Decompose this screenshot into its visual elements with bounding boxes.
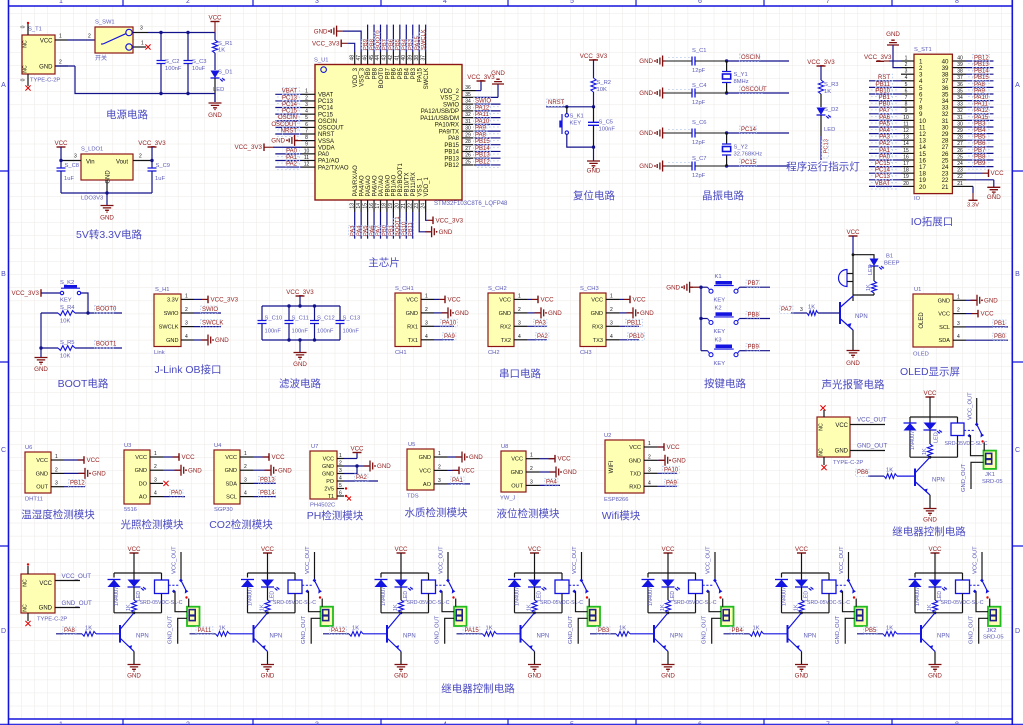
svg-text:PA4/AO: PA4/AO bbox=[359, 175, 365, 197]
net label PA7 base wire bbox=[780, 306, 808, 314]
svg-text:2: 2 bbox=[438, 464, 441, 470]
net label BOOT1 wire bbox=[95, 341, 123, 349]
svg-text:GND_OUT: GND_OUT bbox=[568, 615, 574, 644]
svg-text:VCC_OUT: VCC_OUT bbox=[968, 392, 974, 420]
svg-text:B: B bbox=[1015, 271, 1020, 278]
svg-text:4: 4 bbox=[185, 334, 188, 340]
relay bottom rail wire bbox=[515, 611, 563, 614]
svg-text:S_D2: S_D2 bbox=[824, 107, 839, 113]
ground GND at U8 pin 2 bbox=[539, 467, 577, 478]
svg-text:12pF: 12pF bbox=[692, 68, 706, 74]
svg-text:5: 5 bbox=[339, 483, 342, 489]
svg-text:34: 34 bbox=[957, 95, 963, 101]
ground GND of reset circuit bbox=[587, 145, 601, 174]
svg-text:温湿度检测模块: 温湿度检测模块 bbox=[21, 508, 95, 521]
resistor 1K base bbox=[216, 626, 254, 637]
svg-text:VCC_OUT: VCC_OUT bbox=[305, 546, 311, 574]
svg-text:10: 10 bbox=[304, 148, 310, 154]
svg-text:TX1: TX1 bbox=[408, 338, 418, 344]
svg-text:PA7: PA7 bbox=[781, 307, 793, 313]
svg-text:PA9: PA9 bbox=[666, 480, 678, 486]
svg-text:NPN: NPN bbox=[136, 634, 149, 640]
svg-text:S_C1: S_C1 bbox=[692, 48, 707, 54]
svg-text:1N4007: 1N4007 bbox=[247, 587, 253, 606]
svg-text:BEEP: BEEP bbox=[884, 261, 900, 267]
resistor 1K of relay LED bbox=[527, 600, 538, 613]
svg-text:VCC: VCC bbox=[272, 454, 286, 461]
svg-text:VCC: VCC bbox=[923, 390, 937, 397]
svg-text:S_C9: S_C9 bbox=[156, 163, 171, 169]
svg-text:10: 10 bbox=[903, 115, 909, 121]
svg-text:RXD: RXD bbox=[629, 484, 641, 490]
resistor 1K base bbox=[483, 626, 521, 637]
svg-text:NC: NC bbox=[819, 423, 825, 431]
svg-text:1: 1 bbox=[530, 453, 533, 459]
connector JK SRD-05 bbox=[187, 607, 200, 626]
svg-text:JK2: JK2 bbox=[987, 628, 997, 634]
ground GND at U6 pin 2 bbox=[64, 468, 106, 479]
svg-text:GND: GND bbox=[208, 112, 222, 119]
svg-text:1N4007: 1N4007 bbox=[910, 431, 916, 450]
svg-text:VSS_3: VSS_3 bbox=[359, 67, 365, 86]
svg-text:VCC: VCC bbox=[39, 581, 52, 587]
svg-text:PA1: PA1 bbox=[879, 148, 891, 154]
svg-text:IO: IO bbox=[914, 196, 921, 202]
svg-text:35: 35 bbox=[957, 88, 963, 94]
svg-text:VCC_OUT: VCC_OUT bbox=[439, 546, 445, 574]
net label PB6 base wire bbox=[856, 469, 885, 477]
resistor 1K of relay LED bbox=[660, 600, 671, 613]
flyback diode 1N4007 bbox=[108, 573, 121, 613]
svg-text:1K: 1K bbox=[527, 604, 533, 611]
svg-text:VCC_3V3: VCC_3V3 bbox=[11, 290, 39, 297]
svg-text:GND: GND bbox=[261, 673, 275, 680]
wifi module U2 ESP8266 bbox=[604, 433, 657, 503]
svg-text:LDO3V3: LDO3V3 bbox=[81, 196, 103, 202]
svg-text:12pF: 12pF bbox=[692, 140, 706, 146]
svg-text:PB5: PB5 bbox=[865, 628, 877, 634]
svg-text:PA11/USB/DM: PA11/USB/DM bbox=[420, 116, 459, 122]
svg-text:VCC: VCC bbox=[40, 39, 53, 45]
net label RST at S_ST1 pin 4 bbox=[869, 74, 901, 82]
svg-text:PB8: PB8 bbox=[748, 313, 760, 319]
svg-text:NC: NC bbox=[819, 448, 825, 456]
svg-text:PB8: PB8 bbox=[372, 67, 378, 79]
svg-text:B1: B1 bbox=[886, 254, 893, 260]
svg-text:PB13: PB13 bbox=[974, 62, 989, 68]
svg-text:CH2: CH2 bbox=[488, 350, 500, 356]
net label PA2 wire at U7 PO bbox=[344, 474, 378, 482]
power VCC_3V3 at S_H1 pin 1 bbox=[194, 296, 239, 304]
relay top rail wire bbox=[381, 572, 429, 574]
no-connect at U3 pin 3 bbox=[163, 481, 168, 486]
svg-text:GND: GND bbox=[188, 467, 202, 474]
svg-text:VDD_2: VDD_2 bbox=[440, 89, 460, 95]
svg-text:3: 3 bbox=[140, 26, 143, 32]
power VCC_3V3 at VDD_1 pin 24 bbox=[426, 212, 464, 225]
svg-text:GND: GND bbox=[528, 673, 542, 680]
ground GND at S_C6 bbox=[639, 128, 692, 139]
svg-text:42: 42 bbox=[388, 55, 394, 61]
svg-text:22: 22 bbox=[407, 203, 413, 209]
ground GND at VSSA pin 8 bbox=[271, 135, 301, 146]
display U1 OLED bbox=[913, 287, 966, 358]
relay bottom rail wire bbox=[782, 611, 830, 614]
svg-text:PB9: PB9 bbox=[748, 345, 760, 351]
svg-text:PC13: PC13 bbox=[318, 99, 334, 105]
svg-text:SRD-05VDC-SL-C: SRD-05VDC-SL-C bbox=[140, 600, 183, 606]
svg-text:PB7: PB7 bbox=[385, 67, 391, 79]
left net wires of S_ST1 bbox=[869, 81, 901, 189]
right pin stubs 36-25 of S_U1 bbox=[462, 85, 476, 165]
svg-text:1: 1 bbox=[55, 454, 58, 460]
svg-text:VCC: VCC bbox=[928, 546, 942, 553]
svg-text:16: 16 bbox=[369, 203, 375, 209]
power VCC at S_CH3 pin 1 bbox=[619, 296, 646, 304]
svg-text:2: 2 bbox=[518, 307, 521, 313]
resistor S_R3 1K bbox=[818, 80, 838, 107]
svg-text:3: 3 bbox=[957, 321, 960, 327]
svg-text:S_R2: S_R2 bbox=[597, 80, 612, 86]
transistor NPN bbox=[788, 613, 817, 652]
resistor 1K of relay LED bbox=[393, 600, 404, 613]
relay contact and VCC_OUT bbox=[836, 546, 856, 599]
svg-text:GND: GND bbox=[293, 361, 307, 368]
net label PA11 base wire bbox=[190, 627, 216, 635]
svg-text:3: 3 bbox=[800, 307, 803, 313]
svg-text:7: 7 bbox=[305, 128, 308, 134]
bottom pin stubs 13-24 of S_U1 bbox=[349, 200, 426, 212]
svg-text:SRD-05VDC-SL-C: SRD-05VDC-SL-C bbox=[941, 600, 984, 606]
svg-text:4: 4 bbox=[154, 491, 157, 497]
svg-text:27: 27 bbox=[465, 146, 471, 152]
svg-text:46: 46 bbox=[362, 55, 368, 61]
svg-text:3: 3 bbox=[185, 321, 188, 327]
svg-text:SRD-05VDC-SL-C: SRD-05VDC-SL-C bbox=[407, 600, 450, 606]
svg-text:20: 20 bbox=[903, 181, 909, 187]
svg-text:GND: GND bbox=[629, 458, 641, 464]
svg-text:PB4: PB4 bbox=[732, 628, 744, 634]
filter top rail wire bbox=[262, 304, 340, 307]
svg-text:VCC: VCC bbox=[991, 170, 1005, 177]
svg-text:2: 2 bbox=[55, 467, 58, 473]
connector S_T1 TYPE-C-2P bbox=[22, 27, 60, 84]
svg-text:12pF: 12pF bbox=[692, 173, 706, 179]
svg-text:VSS_1: VSS_1 bbox=[418, 177, 424, 196]
ground GND of filter bank bbox=[293, 340, 307, 368]
power VCC at U1 pin 2 bbox=[966, 310, 994, 318]
svg-text:1K: 1K bbox=[126, 604, 132, 611]
svg-text:1K: 1K bbox=[393, 604, 399, 611]
svg-text:RX3: RX3 bbox=[592, 324, 603, 330]
svg-text:1N4007: 1N4007 bbox=[114, 587, 120, 606]
top pin stubs 48-37 of S_U1 bbox=[349, 52, 426, 65]
svg-text:19: 19 bbox=[903, 174, 909, 180]
svg-text:PC14: PC14 bbox=[875, 168, 891, 174]
crystal S_Y1 8MHz bbox=[722, 61, 749, 93]
svg-text:GND: GND bbox=[100, 215, 114, 222]
svg-text:S_U1: S_U1 bbox=[314, 58, 329, 64]
svg-text:20: 20 bbox=[919, 184, 926, 191]
svg-text:VCC: VCC bbox=[394, 546, 408, 553]
svg-text:PB5: PB5 bbox=[974, 135, 986, 141]
svg-text:VDD_1: VDD_1 bbox=[424, 176, 430, 196]
relay contact and VCC_OUT bbox=[569, 546, 589, 599]
GND_OUT wire of relay control bbox=[961, 462, 984, 492]
svg-text:KEY: KEY bbox=[570, 121, 582, 127]
svg-text:OLED: OLED bbox=[919, 312, 925, 329]
svg-text:RST: RST bbox=[878, 75, 890, 81]
capacitor S_C13 100nF bbox=[336, 306, 361, 340]
svg-text:1N4007: 1N4007 bbox=[781, 587, 787, 606]
svg-text:GND: GND bbox=[34, 366, 48, 373]
svg-text:1: 1 bbox=[648, 441, 651, 447]
net label PB3 base wire bbox=[590, 627, 616, 635]
svg-text:CH1: CH1 bbox=[395, 350, 407, 356]
svg-text:GND: GND bbox=[640, 310, 654, 317]
LED of relay bbox=[528, 573, 547, 601]
flyback diode 1N4007 bbox=[508, 573, 521, 613]
svg-text:VCC: VCC bbox=[36, 458, 48, 464]
svg-text:PA2/TX/AO: PA2/TX/AO bbox=[318, 165, 349, 171]
svg-text:IO拓展口: IO拓展口 bbox=[911, 216, 954, 228]
svg-text:13: 13 bbox=[349, 203, 355, 209]
svg-text:光照检测模块: 光照检测模块 bbox=[121, 518, 184, 531]
svg-text:BOOT0: BOOT0 bbox=[96, 307, 117, 313]
svg-text:PA10: PA10 bbox=[974, 95, 989, 101]
svg-text:PB10: PB10 bbox=[629, 334, 644, 340]
bottom stub of S_T1 no-connect bbox=[21, 74, 31, 91]
svg-text:1uF: 1uF bbox=[64, 176, 74, 182]
transistor NPN of alarm bbox=[840, 296, 868, 330]
svg-text:OSCOUT: OSCOUT bbox=[271, 122, 297, 128]
svg-text:A: A bbox=[1015, 82, 1020, 89]
svg-text:OSCOUT: OSCOUT bbox=[741, 87, 767, 93]
transistor NPN bbox=[521, 613, 550, 652]
svg-text:VCC: VCC bbox=[846, 229, 860, 236]
svg-text:VCC: VCC bbox=[208, 15, 222, 22]
svg-text:3: 3 bbox=[315, 722, 319, 725]
resistor 1K base bbox=[349, 626, 387, 637]
svg-text:100nF: 100nF bbox=[599, 127, 616, 133]
power 3.3V at S_ST1 pin 21 bbox=[966, 186, 979, 208]
net label PC15 bbox=[727, 159, 789, 167]
svg-text:1: 1 bbox=[425, 293, 428, 299]
svg-text:GND: GND bbox=[661, 673, 675, 680]
ground GND at VSS_3 pin 47 bbox=[314, 26, 361, 52]
svg-text:GND: GND bbox=[795, 673, 809, 680]
svg-text:PA1/AO: PA1/AO bbox=[318, 159, 340, 165]
svg-text:PC14: PC14 bbox=[318, 106, 334, 112]
relay coil SRD-05VDC-SL-C bbox=[941, 573, 984, 613]
svg-text:U7: U7 bbox=[311, 444, 318, 450]
svg-text:4: 4 bbox=[443, 0, 447, 5]
connector TYPE-C-2P of relay control bbox=[817, 417, 863, 466]
svg-text:GND: GND bbox=[406, 311, 418, 317]
svg-text:21: 21 bbox=[401, 203, 407, 209]
svg-text:PA9: PA9 bbox=[444, 334, 456, 340]
svg-text:2: 2 bbox=[185, 307, 188, 313]
svg-text:7: 7 bbox=[826, 722, 830, 725]
svg-text:VCC_OUT: VCC_OUT bbox=[62, 573, 92, 580]
svg-text:PB0: PB0 bbox=[994, 334, 1006, 340]
svg-text:TYPE-C-2P: TYPE-C-2P bbox=[37, 617, 67, 623]
svg-text:28: 28 bbox=[465, 139, 471, 145]
svg-text:PB13: PB13 bbox=[444, 156, 459, 162]
svg-text:26: 26 bbox=[465, 153, 471, 159]
svg-text:1: 1 bbox=[59, 0, 63, 5]
capacitor S_C8 1uF bbox=[57, 161, 80, 194]
power VCC at U8 pin 1 bbox=[539, 455, 571, 463]
svg-text:3: 3 bbox=[610, 320, 613, 326]
serial module S_CH2 bbox=[488, 286, 527, 356]
net label PA3 wire bbox=[527, 319, 547, 327]
svg-text:U4: U4 bbox=[214, 443, 222, 449]
power VCC_3V3 at S_ST1 pin 1 bbox=[864, 54, 901, 61]
svg-text:KEY: KEY bbox=[714, 329, 726, 335]
svg-text:PA0: PA0 bbox=[318, 152, 330, 158]
svg-text:OSCOUT: OSCOUT bbox=[318, 126, 344, 132]
ground GND of relay control bbox=[923, 495, 937, 524]
power VCC at U6 pin 1 bbox=[64, 456, 100, 464]
bottom net wires of S_U1 bbox=[348, 212, 414, 239]
svg-text:滤波电路: 滤波电路 bbox=[279, 377, 321, 390]
svg-text:1K: 1K bbox=[753, 626, 760, 632]
svg-text:VCC_OUT: VCC_OUT bbox=[572, 546, 578, 574]
svg-text:VCC: VCC bbox=[182, 454, 196, 461]
svg-text:GND_OUT: GND_OUT bbox=[969, 615, 975, 644]
power VCC at U4 pin 1 bbox=[253, 453, 285, 461]
svg-text:程序运行指示灯: 程序运行指示灯 bbox=[786, 160, 860, 173]
svg-text:GND: GND bbox=[987, 194, 1001, 201]
svg-text:AO: AO bbox=[423, 482, 432, 488]
net label PA12 base wire bbox=[323, 627, 349, 635]
net label PB10 wire bbox=[619, 333, 644, 341]
svg-text:PA2: PA2 bbox=[286, 161, 298, 167]
svg-text:PA15: PA15 bbox=[974, 115, 989, 121]
svg-text:VCC_OUT: VCC_OUT bbox=[706, 546, 712, 574]
svg-text:YW_J: YW_J bbox=[500, 496, 516, 502]
transistor NPN bbox=[387, 613, 416, 652]
svg-text:1K: 1K bbox=[886, 626, 893, 632]
power VCC at U5 pin 2 bbox=[447, 467, 475, 475]
svg-text:7: 7 bbox=[826, 0, 830, 5]
svg-text:KEY: KEY bbox=[60, 298, 72, 304]
ground GND at S_ST1 pin 2 bbox=[886, 31, 901, 67]
no-connect dot at U7 pin 5 bbox=[345, 487, 347, 489]
wire GND return rail bbox=[55, 66, 215, 102]
svg-text:GND: GND bbox=[36, 471, 48, 477]
svg-text:PB14: PB14 bbox=[974, 69, 989, 75]
net label PB13 wire bbox=[253, 476, 276, 484]
svg-text:PB15: PB15 bbox=[475, 139, 490, 145]
ground GND at S_ST1 pin 22 bbox=[966, 180, 1001, 201]
svg-text:1: 1 bbox=[154, 451, 157, 457]
relay bottom rail wire bbox=[910, 456, 958, 459]
svg-text:VCC_OUT: VCC_OUT bbox=[973, 546, 979, 574]
svg-text:BOOT0: BOOT0 bbox=[379, 67, 385, 88]
svg-text:24: 24 bbox=[957, 161, 963, 167]
svg-text:B: B bbox=[1, 271, 6, 278]
right pins 40-21 of S_ST1 bbox=[942, 55, 966, 190]
LED of relay bbox=[662, 573, 681, 601]
svg-text:PC15: PC15 bbox=[282, 109, 298, 115]
svg-text:5: 5 bbox=[905, 82, 908, 88]
svg-text:PC13: PC13 bbox=[875, 174, 891, 180]
svg-text:VCC: VCC bbox=[528, 546, 542, 553]
net label SWCLK wire bbox=[194, 320, 223, 328]
svg-text:0: 0 bbox=[21, 78, 27, 81]
svg-text:PA3: PA3 bbox=[535, 320, 547, 326]
relay top rail wire bbox=[910, 416, 958, 418]
svg-text:100nF: 100nF bbox=[317, 329, 334, 335]
svg-text:2: 2 bbox=[154, 464, 157, 470]
relay coil SRD-05VDC-SL-C bbox=[407, 573, 450, 613]
svg-text:VCC: VCC bbox=[135, 455, 147, 461]
svg-text:3: 3 bbox=[154, 477, 157, 483]
svg-text:34: 34 bbox=[465, 99, 471, 105]
power VCC_3V3 at VDD_3 pin 48 bbox=[312, 40, 355, 53]
svg-text:SRD-05VDC-SL-C: SRD-05VDC-SL-C bbox=[945, 441, 988, 447]
svg-text:ESP8266: ESP8266 bbox=[604, 497, 629, 503]
svg-text:晶振电路: 晶振电路 bbox=[702, 189, 744, 202]
svg-text:PB12: PB12 bbox=[70, 481, 85, 487]
svg-text:VDDA: VDDA bbox=[318, 145, 335, 151]
svg-text:5: 5 bbox=[570, 0, 574, 5]
svg-text:PA9/TX: PA9/TX bbox=[439, 129, 459, 135]
relay bottom rail wire bbox=[114, 611, 162, 614]
regulator S_LDO1 LDO3V3 bbox=[81, 147, 133, 202]
svg-text:GND: GND bbox=[278, 467, 292, 474]
ground GND at U7 pins 2-3 bbox=[344, 461, 391, 474]
power VCC at S_CH2 pin 1 bbox=[527, 296, 554, 304]
svg-text:S_R1: S_R1 bbox=[218, 41, 233, 47]
svg-text:GND: GND bbox=[563, 469, 577, 476]
svg-text:26: 26 bbox=[957, 148, 963, 154]
svg-text:4: 4 bbox=[610, 334, 613, 340]
svg-text:OUT: OUT bbox=[36, 485, 48, 491]
net label PA0 wire bbox=[163, 490, 185, 498]
svg-text:GND: GND bbox=[587, 168, 601, 175]
svg-text:U6: U6 bbox=[25, 445, 32, 451]
wire S_T1 VCC to switch bbox=[68, 34, 95, 41]
svg-text:GND: GND bbox=[469, 454, 483, 461]
GND_OUT wire bbox=[301, 615, 321, 644]
svg-text:C: C bbox=[1, 447, 6, 454]
svg-text:3.3V: 3.3V bbox=[967, 203, 979, 209]
svg-text:PH4502C: PH4502C bbox=[310, 503, 335, 509]
svg-text:PB14: PB14 bbox=[260, 491, 275, 497]
power VCC of relay PB5 bbox=[928, 546, 942, 573]
svg-text:VCC_3V3: VCC_3V3 bbox=[211, 297, 239, 304]
svg-text:PA3/RX/AO: PA3/RX/AO bbox=[353, 165, 359, 197]
LED of relay control bbox=[924, 417, 943, 444]
svg-text:D: D bbox=[1, 628, 6, 635]
svg-text:按键电路: 按键电路 bbox=[704, 377, 746, 390]
svg-text:29: 29 bbox=[465, 132, 471, 138]
svg-text:PA11: PA11 bbox=[198, 628, 212, 634]
power VCC_3V3 at VDD_2 pin 36 bbox=[467, 74, 495, 91]
svg-text:S_CH2: S_CH2 bbox=[488, 286, 507, 292]
svg-text:GND: GND bbox=[984, 298, 998, 305]
svg-text:继电器控制电路: 继电器控制电路 bbox=[892, 525, 966, 538]
svg-text:2: 2 bbox=[186, 0, 190, 5]
svg-text:S_C4: S_C4 bbox=[692, 83, 707, 89]
svg-text:GND: GND bbox=[39, 65, 53, 71]
svg-text:电源电路: 电源电路 bbox=[106, 108, 148, 121]
svg-text:2: 2 bbox=[88, 34, 91, 40]
flyback diode 1N4007 bbox=[909, 573, 922, 613]
